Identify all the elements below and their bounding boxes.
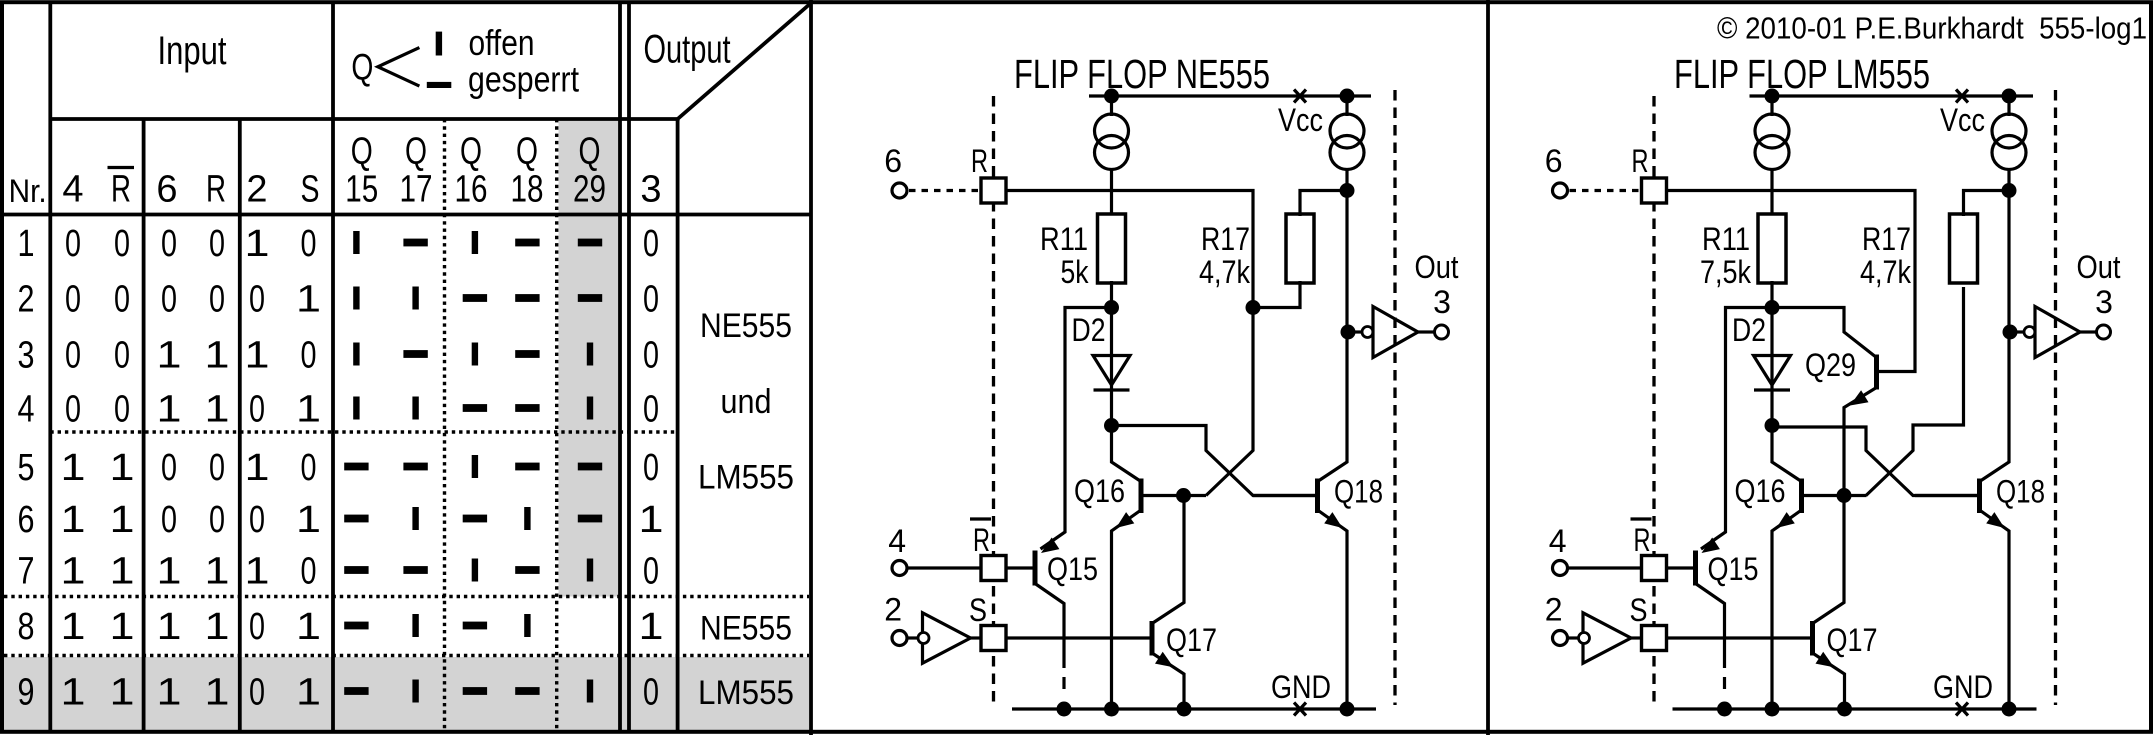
table horizontal line under Input row	[50, 117, 679, 121]
svg-text:7,5k: 7,5k	[1700, 254, 1752, 290]
svg-text:1: 1	[110, 551, 135, 593]
rail junction Q18 (NE555)	[1340, 702, 1355, 717]
Q16 collector wire (NE555)	[1112, 426, 1142, 482]
svg-text:0: 0	[161, 499, 177, 541]
svg-text:NE555: NE555	[700, 610, 792, 648]
node R11 bottom (LM555)	[1765, 300, 1780, 315]
cross-coupling wire D2 node to Q18 base (LM555)	[1772, 427, 1978, 496]
diode D2 (NE555)	[1093, 356, 1130, 391]
svg-text:1: 1	[18, 223, 35, 265]
svg-text:0: 0	[643, 447, 659, 489]
wire node through D2 to node (LM555)	[1770, 308, 1773, 428]
current source right (Vcc) (LM555)	[1992, 114, 2026, 170]
Q18 collector wire (LM555)	[1980, 170, 2010, 482]
svg-text:0: 0	[643, 551, 659, 593]
svg-text:1: 1	[205, 551, 230, 593]
chip boundary dashed line right (NE555)	[1393, 90, 1396, 705]
node D2 bottom (NE555)	[1104, 418, 1119, 433]
Q18 base wire (NE555)	[1253, 494, 1316, 497]
dashed wire 6 to R box (LM555)	[1570, 189, 1642, 192]
x mark on Vcc rail (NE555)	[1294, 90, 1306, 103]
Rbar label (LM555)	[1631, 519, 1652, 558]
wire node to Q15 collector (NE555)	[1041, 308, 1112, 550]
svg-text:5k: 5k	[1061, 254, 1090, 290]
svg-text:R: R	[973, 522, 990, 558]
svg-text:NE555: NE555	[700, 307, 792, 345]
svg-text:und: und	[721, 383, 772, 421]
svg-text:0: 0	[209, 499, 225, 541]
svg-text:1: 1	[110, 499, 135, 541]
svg-text:0: 0	[301, 447, 317, 489]
svg-text:4: 4	[1549, 523, 1567, 559]
output terminal 3 (NE555)	[1435, 325, 1449, 339]
R threshold box (LM555)	[1642, 178, 1667, 203]
wire 4 to Rbar box (NE555)	[907, 566, 981, 569]
resistor R17 (LM555)	[1950, 214, 1978, 283]
input inverter bubble (NE555)	[918, 633, 929, 644]
node R11 bottom (NE555)	[1104, 300, 1119, 315]
table double line left	[618, 4, 622, 730]
divider table to NE555 panel	[809, 0, 813, 735]
svg-text:1: 1	[245, 223, 270, 265]
GND bottom rail (NE555)	[1012, 707, 1376, 710]
svg-text:16: 16	[455, 169, 488, 211]
header Rbar overline	[108, 166, 135, 169]
svg-text:gesperrt: gesperrt	[468, 59, 579, 100]
current source left (LM555)	[1755, 114, 1789, 170]
node R17/R wire junction (NE555)	[1246, 300, 1261, 315]
svg-text:0: 0	[209, 223, 225, 265]
input terminal 2 (NE555)	[892, 631, 907, 646]
svg-text:0: 0	[301, 335, 317, 377]
svg-text:Vcc: Vcc	[1278, 102, 1323, 138]
svg-text:1: 1	[110, 447, 135, 489]
wire R box to cross node (NE555)	[1006, 191, 1253, 310]
rail junction Q18 (LM555)	[2002, 702, 2017, 717]
svg-text:0: 0	[114, 279, 130, 321]
transistor Q15 base bar (NE555)	[1033, 551, 1038, 586]
table vertical line Nr|4	[48, 4, 52, 730]
table dotted horizontal rows 8|9	[4, 654, 809, 657]
svg-text:R: R	[1634, 522, 1651, 558]
Q16 emitter arrow (NE555)	[1116, 512, 1134, 528]
S set box (NE555)	[981, 626, 1006, 651]
svg-text:Q: Q	[460, 131, 482, 173]
table vertical line R|2	[238, 119, 242, 730]
Q29 emitter arrow (LM555)	[1850, 390, 1869, 405]
input terminal 2 (LM555)	[1553, 631, 1568, 646]
svg-text:Q17: Q17	[1827, 622, 1878, 658]
svg-text:2: 2	[1545, 592, 1563, 628]
svg-text:1: 1	[296, 672, 321, 714]
svg-text:Q18: Q18	[1334, 474, 1383, 510]
svg-text:Nr.: Nr.	[9, 173, 47, 209]
R threshold box (NE555)	[981, 178, 1006, 203]
svg-text:1: 1	[205, 672, 230, 714]
transistor Q16 base bar (NE555)	[1139, 479, 1144, 514]
Q18 collector wire (NE555)	[1318, 170, 1348, 482]
Q15 emitter dashed continuation (NE555)	[1062, 677, 1065, 689]
svg-text:15: 15	[345, 169, 378, 211]
Q17 emitter wire (NE555)	[1152, 653, 1184, 709]
svg-text:1: 1	[245, 551, 270, 593]
wire inverter to S box (NE555)	[971, 636, 982, 639]
svg-text:6: 6	[156, 169, 177, 211]
svg-text:29: 29	[573, 169, 606, 211]
GND bottom rail (LM555)	[1673, 707, 2037, 710]
svg-text:4: 4	[62, 169, 83, 211]
TABLE	[2, 3, 811, 730]
svg-text:0: 0	[249, 672, 265, 714]
Q17 base wire (S line) (LM555)	[1667, 636, 1812, 639]
x mark on Vcc rail (LM555)	[1956, 90, 1968, 103]
wire inverter to terminal (NE555)	[1418, 330, 1434, 333]
node Vcc feed (LM555)	[2002, 183, 2017, 198]
svg-text:Q16: Q16	[1735, 473, 1786, 509]
svg-text:1: 1	[61, 672, 86, 714]
svg-text:0: 0	[643, 223, 659, 265]
svg-text:0: 0	[65, 223, 81, 265]
svg-text:R: R	[971, 143, 988, 179]
svg-text:2: 2	[884, 592, 902, 628]
svg-text:Output: Output	[644, 27, 731, 71]
rail junction Q16 (LM555)	[1765, 702, 1780, 717]
Q16 collector wire (LM555)	[1772, 426, 1802, 482]
wire inverter to S box (LM555)	[1631, 636, 1642, 639]
svg-text:0: 0	[161, 279, 177, 321]
svg-text:7: 7	[18, 551, 35, 593]
svg-text:R11: R11	[1040, 221, 1088, 257]
rail junction Q17 (LM555)	[1837, 702, 1852, 717]
wire R17 bottom to node (NE555)	[1253, 281, 1300, 308]
wire R11 to node (LM555)	[1770, 281, 1773, 309]
input inverter bubble (LM555)	[1579, 633, 1590, 644]
svg-text:R11: R11	[1702, 221, 1750, 257]
svg-text:1: 1	[61, 606, 86, 648]
svg-text:Q: Q	[351, 131, 373, 173]
svg-text:0: 0	[643, 279, 659, 321]
svg-text:1: 1	[157, 606, 182, 648]
rail junction Q15 (NE555)	[1057, 702, 1072, 717]
svg-text:1: 1	[157, 389, 182, 431]
wire to inverter bubble (LM555)	[2010, 330, 2024, 333]
svg-text:0: 0	[209, 279, 225, 321]
svg-text:LM555: LM555	[698, 674, 794, 712]
input terminal 6 (NE555)	[892, 183, 907, 198]
svg-text:1: 1	[205, 389, 230, 431]
resistor R17 (NE555)	[1286, 214, 1314, 283]
wire 2 to input inverter (LM555)	[1568, 636, 1578, 639]
svg-text:0: 0	[65, 389, 81, 431]
svg-text:2: 2	[18, 279, 35, 321]
svg-text:Out: Out	[2077, 249, 2121, 285]
Q18 emitter arrow (NE555)	[1324, 512, 1342, 528]
svg-text:0: 0	[249, 606, 265, 648]
svg-text:17: 17	[400, 169, 433, 211]
rail junction Q17 (NE555)	[1177, 702, 1192, 717]
svg-text:1: 1	[639, 606, 664, 648]
wire R11 to node (NE555)	[1110, 281, 1113, 309]
node inverter tap (NE555)	[1341, 325, 1356, 340]
svg-text:0: 0	[114, 335, 130, 377]
wire rail to current source right (LM555)	[2007, 96, 2010, 116]
svg-text:4: 4	[18, 389, 35, 431]
wire 2 to input inverter (NE555)	[907, 636, 917, 639]
svg-text:1: 1	[61, 499, 86, 541]
transistor Q18 base bar (LM555)	[1977, 479, 1982, 514]
svg-text:1: 1	[296, 389, 321, 431]
svg-text:Q16: Q16	[1074, 473, 1125, 509]
svg-text:0: 0	[249, 499, 265, 541]
table vertical line 3|names	[676, 119, 680, 730]
Q17 emitter wire (LM555)	[1813, 653, 1845, 709]
Q15 emitter wire (NE555)	[1035, 584, 1064, 669]
current source right (Vcc) (NE555)	[1330, 114, 1364, 170]
svg-text:2: 2	[246, 169, 267, 211]
svg-text:4: 4	[888, 523, 906, 559]
Q17 collector wire (NE555)	[1152, 496, 1184, 624]
current source left (NE555)	[1095, 114, 1129, 170]
wire R17 top to Vcc node (LM555)	[1964, 191, 2010, 217]
input terminal 6 (LM555)	[1553, 183, 1568, 198]
svg-text:9: 9	[18, 672, 35, 714]
svg-text:1: 1	[296, 279, 321, 321]
svg-text:3: 3	[640, 169, 661, 211]
Rbar reset box (NE555)	[981, 556, 1006, 581]
input inverter triangle (NE555)	[923, 613, 971, 663]
svg-text:1: 1	[157, 551, 182, 593]
svg-text:D2: D2	[1072, 312, 1106, 348]
svg-text:0: 0	[161, 447, 177, 489]
svg-text:R17: R17	[1862, 221, 1911, 257]
junction on top rail right (LM555)	[2002, 89, 2017, 104]
svg-text:FLIP FLOP LM555: FLIP FLOP LM555	[1674, 51, 1930, 97]
table dotted vertical Q18|Q29	[555, 119, 558, 730]
Q16 base wire (LM555)	[1803, 494, 1867, 497]
svg-text:18: 18	[511, 169, 544, 211]
wire node through D2 to node (NE555)	[1110, 308, 1113, 428]
svg-text:Q15: Q15	[1708, 551, 1759, 587]
svg-text:1: 1	[110, 606, 135, 648]
node inverter tap (LM555)	[2003, 325, 2018, 340]
legend fork lines	[378, 48, 420, 87]
Rbar reset box (LM555)	[1642, 556, 1667, 581]
junction on top rail left (LM555)	[1765, 89, 1780, 104]
chip boundary dashed line right (LM555)	[2054, 90, 2057, 705]
svg-text:0: 0	[114, 389, 130, 431]
svg-text:6: 6	[18, 499, 35, 541]
wire R box to Q29 base (LM555)	[1667, 191, 1916, 372]
svg-text:0: 0	[249, 389, 265, 431]
resistor R11 (NE555)	[1098, 214, 1126, 283]
cross-coupling wire R node to Q16 base (NE555)	[1206, 308, 1253, 496]
node Vcc feed (NE555)	[1340, 183, 1355, 198]
diode D2 (LM555)	[1754, 356, 1791, 391]
svg-text:1: 1	[205, 606, 230, 648]
Q18 emitter arrow (LM555)	[1986, 512, 2004, 528]
wire rail to current source right (NE555)	[1345, 96, 1348, 116]
x mark on GND rail (NE555)	[1294, 703, 1306, 716]
Q16 emitter wire (NE555)	[1112, 510, 1142, 709]
svg-text:5: 5	[18, 447, 35, 489]
input inverter triangle (LM555)	[1583, 613, 1631, 663]
svg-text:Q15: Q15	[1047, 551, 1098, 587]
svg-text:R17: R17	[1201, 221, 1250, 257]
wire to inverter bubble (NE555)	[1348, 330, 1362, 333]
svg-text:4,7k: 4,7k	[1199, 254, 1251, 290]
transistor Q17 base bar (LM555)	[1810, 621, 1815, 656]
svg-text:Q: Q	[405, 131, 427, 173]
Q17 base wire (S line) (NE555)	[1006, 636, 1151, 639]
divider NE555 to LM555 panel	[1486, 0, 1490, 735]
LM555 PANEL	[1545, 11, 2147, 717]
node on Q16 base (LM555)	[1837, 488, 1852, 503]
wire rail to current source left (NE555)	[1110, 96, 1113, 116]
Q18 base wire (LM555)	[1915, 494, 1978, 497]
svg-text:LM555: LM555	[698, 459, 794, 497]
svg-text:3: 3	[18, 335, 35, 377]
svg-text:offen: offen	[469, 22, 535, 63]
transistor Q18 base bar (NE555)	[1315, 479, 1320, 514]
Vcc top rail (LM555)	[1750, 94, 2034, 97]
node on Q16 base (NE555)	[1176, 488, 1191, 503]
input terminal 4 (NE555)	[892, 561, 907, 576]
svg-text:0: 0	[643, 672, 659, 714]
wire inverter to terminal (LM555)	[2080, 330, 2096, 333]
R17 value labels (LM555)	[1860, 221, 1912, 290]
output inverter triangle (NE555)	[1373, 307, 1418, 358]
svg-text:GND: GND	[1271, 669, 1331, 705]
Q15 emitter wire (LM555)	[1696, 584, 1725, 669]
wire 4 to Rbar box (LM555)	[1568, 566, 1642, 569]
Q16 emitter arrow (LM555)	[1777, 512, 1795, 528]
node D2 bottom (LM555)	[1765, 418, 1780, 433]
svg-text:1: 1	[245, 335, 270, 377]
R17 value labels (NE555)	[1199, 221, 1251, 290]
Q15 emitter dashed continuation (LM555)	[1723, 677, 1726, 689]
Q15 base wire (LM555)	[1667, 566, 1695, 569]
Q18 emitter wire (NE555)	[1318, 510, 1348, 709]
svg-text:Out: Out	[1415, 249, 1459, 285]
svg-text:R: R	[206, 169, 226, 211]
legend gesperrt symbol	[427, 82, 452, 88]
svg-text:Input: Input	[158, 29, 227, 73]
rail junction Q16 (NE555)	[1104, 702, 1119, 717]
svg-text:Q18: Q18	[1996, 474, 2045, 510]
chip boundary dashed line left (LM555)	[1652, 96, 1655, 704]
svg-text:1: 1	[639, 499, 664, 541]
table horizontal line under header	[2, 213, 811, 217]
svg-text:S: S	[1630, 592, 1648, 628]
svg-text:1: 1	[296, 606, 321, 648]
svg-text:0: 0	[65, 335, 81, 377]
svg-text:© 2010-01 P.E.Burkhardt 555-l: © 2010-01 P.E.Burkhardt 555-log1	[1717, 11, 2147, 46]
output inverter bubble (NE555)	[1362, 327, 1373, 338]
output terminal 3 (LM555)	[2097, 325, 2111, 339]
svg-text:0: 0	[65, 279, 81, 321]
svg-text:S: S	[969, 592, 987, 628]
table vertical line Rbar|6	[142, 119, 146, 730]
Q29 collector wire (LM555)	[1772, 308, 1877, 358]
Q18 emitter wire (LM555)	[1980, 510, 2010, 709]
svg-text:D2: D2	[1732, 312, 1766, 348]
table dotted horizontal rows 4|5	[50, 430, 677, 433]
table vertical line S|Q15	[331, 4, 335, 730]
svg-text:3: 3	[2095, 284, 2113, 320]
wire rail to current source left (LM555)	[1770, 96, 1773, 116]
Vcc top rail (NE555)	[1089, 94, 1371, 97]
svg-text:R: R	[111, 169, 131, 211]
output inverter triangle (LM555)	[2035, 307, 2080, 358]
junction on top rail left (NE555)	[1104, 89, 1119, 104]
svg-text:1: 1	[110, 672, 135, 714]
transistor Q15 base bar (LM555)	[1693, 551, 1698, 586]
svg-text:1: 1	[245, 447, 270, 489]
x mark on GND rail (LM555)	[1956, 703, 1968, 716]
svg-text:0: 0	[643, 389, 659, 431]
Rbar label (NE555)	[970, 519, 991, 558]
Output cell diagonal	[678, 3, 811, 119]
table dotted horizontal rows 7|8	[4, 595, 809, 598]
wire node to Q15 collector (LM555)	[1701, 308, 1772, 550]
output inverter bubble (LM555)	[2024, 327, 2035, 338]
transistor Q29 base bar (LM555)	[1874, 355, 1879, 390]
svg-text:Q: Q	[516, 131, 538, 173]
svg-text:0: 0	[114, 223, 130, 265]
svg-text:0: 0	[643, 335, 659, 377]
chip boundary dashed line left (NE555)	[992, 96, 995, 704]
svg-text:Q17: Q17	[1166, 622, 1217, 658]
svg-text:8: 8	[18, 606, 35, 648]
svg-text:S: S	[301, 169, 320, 211]
NE555 PANEL	[884, 51, 1458, 717]
svg-text:R: R	[1632, 143, 1649, 179]
Q16 base wire (NE555)	[1143, 494, 1207, 497]
transistor Q17 base bar (NE555)	[1150, 621, 1155, 656]
R11 value labels (NE555)	[1040, 221, 1089, 290]
cross-coupling wire R17 to Q16 base (LM555)	[1866, 287, 1964, 496]
svg-text:4,7k: 4,7k	[1860, 254, 1912, 290]
resistor R11 (LM555)	[1758, 214, 1786, 283]
cross-coupling wire D2 node to Q18 base (NE555)	[1112, 426, 1318, 496]
R11 value labels (LM555)	[1700, 221, 1752, 290]
rail junction Q15 (LM555)	[1717, 702, 1732, 717]
svg-text:1: 1	[296, 499, 321, 541]
input terminal 4 (LM555)	[1553, 561, 1568, 576]
shaded column Q29	[559, 121, 621, 597]
wire current source to R11 (NE555)	[1110, 170, 1113, 217]
svg-text:Q: Q	[579, 131, 601, 173]
Q15 base wire (NE555)	[1006, 566, 1034, 569]
svg-text:1: 1	[157, 335, 182, 377]
svg-text:0: 0	[249, 279, 265, 321]
svg-text:0: 0	[301, 551, 317, 593]
svg-text:6: 6	[884, 143, 902, 179]
table dotted vertical Q17|Q16	[443, 119, 446, 730]
svg-text:1: 1	[157, 672, 182, 714]
Q29 emitter wire to Q16 base and Q17 collector (LM555)	[1813, 388, 1877, 624]
Q17 emitter arrow (NE555)	[1155, 652, 1174, 668]
dashed wire 6 to R box (NE555)	[909, 189, 981, 192]
transistor Q16 base bar (LM555)	[1799, 479, 1804, 514]
wire R17 top to Vcc node (NE555)	[1300, 191, 1347, 217]
svg-text:3: 3	[1433, 284, 1451, 320]
svg-text:0: 0	[209, 447, 225, 489]
svg-text:Q: Q	[351, 47, 373, 88]
Q16 emitter wire (LM555)	[1772, 510, 1802, 709]
arrow into Q15 (NE555)	[1041, 538, 1059, 554]
S set box (LM555)	[1642, 626, 1667, 651]
